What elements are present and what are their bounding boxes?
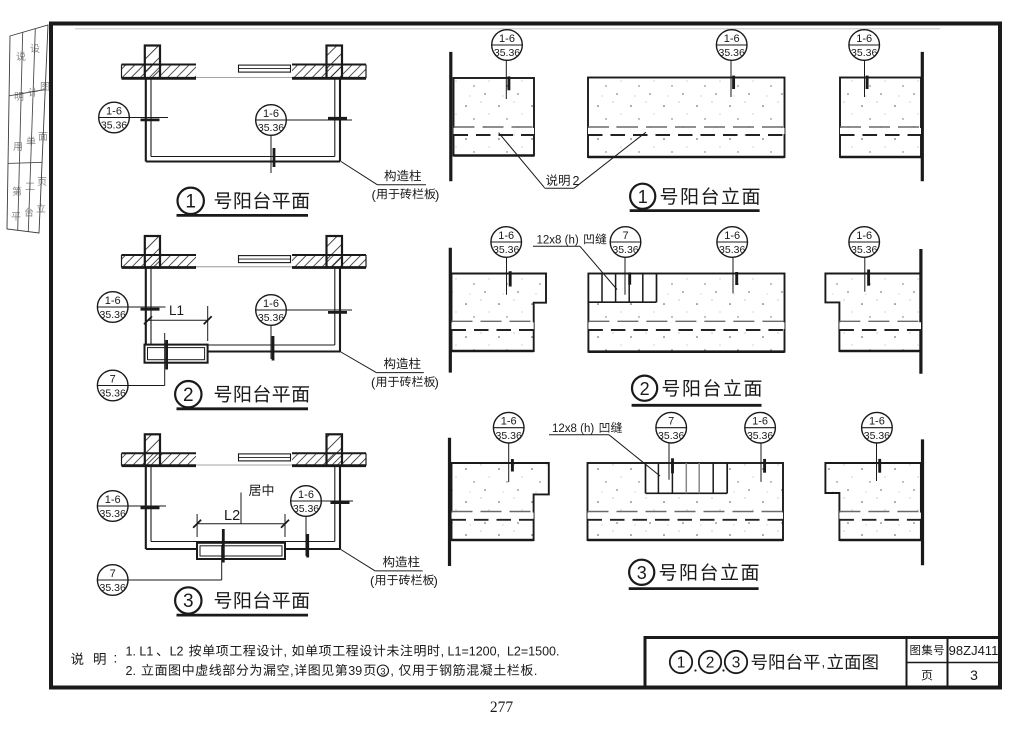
plan2 balcony parapet wall right (double line) (339, 268, 341, 352)
elev1 building wall edge left (449, 52, 452, 181)
svg-text:2: 2 (183, 385, 194, 406)
elev2 panel right hollow-part dashed lines (839, 322, 921, 329)
plan3 middle axis line right and tick on right wall (321, 500, 353, 502)
plan3 middle axis drop line and tick on bottom wall (305, 516, 307, 556)
svg-text:35.36: 35.36 (258, 122, 284, 134)
plan1 exterior wall band left segment (hatched) (122, 65, 197, 79)
svg-text:(: ( (372, 187, 377, 202)
plan3 title: circled 3 号阳台平面 (175, 587, 309, 615)
plan1 middle axis line right and tick on right wall (286, 119, 352, 121)
elev1 building wall edge right (921, 52, 924, 181)
svg-text:(: ( (370, 573, 375, 588)
svg-text:3: 3 (970, 667, 978, 683)
elev3 axis circle 1-6/35.36 right (862, 412, 893, 443)
svg-text:277: 277 (490, 699, 514, 716)
elev2 right axis drop line and tick (864, 258, 866, 292)
binding-edge signature table strip (7, 25, 48, 233)
plan3 exterior wall band left segment (hatched) (122, 453, 197, 465)
svg-text:35.36: 35.36 (851, 47, 877, 59)
svg-text:3: 3 (637, 563, 647, 583)
svg-text:35.36: 35.36 (100, 309, 126, 321)
svg-text:3: 3 (380, 666, 385, 677)
elev1 parapet panel left (stippled) (454, 78, 535, 156)
plan1 balcony parapet wall right (double line) (339, 78, 341, 161)
elev1 title: circled 1 号阳台立面 (630, 184, 760, 211)
plan3 exterior wall band right segment (hatched) (292, 453, 366, 465)
svg-text:35.36: 35.36 (658, 430, 684, 442)
plan2 balcony parapet wall left (double line) (145, 268, 147, 352)
plan1 balcony parapet bottom wall (double line) (146, 160, 340, 162)
elev2 building wall edge left (449, 248, 452, 373)
elev1 panel bottom edges (heavy) (454, 154, 535, 157)
plan2 door opening sill lines (196, 266, 292, 268)
svg-text:,: , (284, 644, 291, 658)
elev3 left axis drop line and tick (508, 443, 510, 482)
elev2 title: circled 2 号阳台立面 (632, 376, 762, 406)
elev2 panel middle hollow-part dashed lines (588, 322, 784, 329)
elev2 left axis drop line and tick (506, 258, 508, 295)
general notes 说明 (71, 651, 117, 666)
plan3 axis label circle 1-6/35.36 middle (291, 486, 322, 517)
plan3 balcony parapet wall right (double line) (339, 466, 341, 549)
elev3 axis circle 7/35.36 (656, 412, 687, 443)
plan2 leader line to constructional-column note (340, 352, 376, 373)
plan2 axis label circle 1-6/35.36 middle (256, 295, 287, 326)
svg-text::: : (114, 651, 118, 666)
plan2 left axis line and tick (128, 306, 166, 308)
svg-text:L1: L1 (169, 303, 184, 318)
elev1 note 说明2 with V leader (499, 133, 545, 188)
elev1 right axis drop line and tick (864, 61, 866, 98)
svg-text:2.: 2. (126, 664, 140, 678)
svg-text:): ) (434, 573, 438, 588)
elev2 axis circle 1-6/35.36 left (491, 227, 522, 258)
svg-text:1-6: 1-6 (856, 33, 872, 45)
elev1 axis circle 1-6/35.36 left (492, 30, 523, 61)
plan3 constructional column right (hatched) (327, 434, 343, 465)
elev1 panel middle hollow-part dashed lines (588, 128, 785, 134)
svg-text:L2: L2 (170, 644, 187, 658)
plan2 balcony bottom wall (double line, planter to right wall) (208, 350, 340, 352)
svg-text:1-6: 1-6 (724, 230, 740, 242)
elev3 title: circled 3 号阳台立面 (629, 560, 759, 589)
elev2 parapet panel right with side tab (stippled) (825, 274, 921, 352)
elev3 circle-7 drop line and tick (668, 443, 670, 480)
plan2 title: circled 2 号阳台平面 (175, 381, 309, 409)
plan3 leader line to constructional-column note (340, 549, 375, 571)
svg-text:35.36: 35.36 (494, 47, 520, 59)
plan3 note text 构造柱(用于砖栏板) (383, 556, 394, 567)
svg-text:1: 1 (638, 187, 648, 207)
elev2 parapet panel left with step notch (stippled) (452, 274, 547, 352)
plan2 leader from circle 7 to planter and tick (128, 385, 165, 387)
plan3 axis label circle 7/35.36 (97, 565, 128, 596)
plan2 axis label circle 7/35.36 (97, 370, 128, 401)
elev3 right axis drop line and tick (876, 443, 878, 481)
plan2 middle axis drop line and tick on bottom wall (270, 325, 272, 359)
elev1 panel left hollow-part dashed lines (454, 128, 535, 134)
plan2 dimension L1 (148, 319, 208, 321)
elev3 building wall edge left (448, 438, 451, 566)
title block frame (645, 638, 1001, 688)
elev2 axis circle 1-6/35.36 right (849, 227, 880, 258)
svg-text:35.36: 35.36 (100, 582, 126, 594)
elev2 axis circle 7/35.36 (610, 227, 641, 258)
elev3 middle axis drop line and tick (760, 443, 762, 482)
plan3 label 居中 with leader (249, 485, 261, 496)
elev3 middle panel groove comb (凹缝) recessed (646, 463, 728, 493)
title block divider lines (906, 638, 908, 688)
svg-text:1-6: 1-6 (263, 108, 279, 120)
svg-text:2: 2 (640, 379, 650, 399)
svg-text:1: 1 (677, 654, 686, 671)
elev2 axis circle 1-6/35.36 middle (717, 227, 748, 258)
elev1 parapet panel middle (stippled) (588, 78, 785, 158)
svg-text:7: 7 (622, 230, 628, 242)
elev2 building wall edge right (919, 249, 922, 374)
svg-text:1-6: 1-6 (105, 295, 121, 307)
svg-text:1-6: 1-6 (298, 489, 314, 501)
plan1 note text 构造柱(用于砖栏板) (384, 170, 395, 181)
svg-text:35.36: 35.36 (100, 388, 126, 400)
svg-text:7: 7 (110, 568, 116, 580)
elev2 panel bottom edges (heavy) (452, 350, 534, 353)
svg-text:1-6: 1-6 (752, 416, 768, 428)
title block label 页 (922, 670, 933, 680)
svg-text:1-6: 1-6 (263, 298, 279, 310)
svg-text:1-6: 1-6 (106, 105, 122, 117)
title block circled numbers 1 2 3 (670, 651, 747, 673)
elev2 panel left hollow-part dashed lines (452, 322, 534, 329)
plan2 exterior wall band left segment (hatched) (122, 255, 197, 268)
svg-text:98ZJ411: 98ZJ411 (949, 643, 999, 658)
svg-text:1: 1 (185, 192, 196, 213)
plan2 middle axis line right and tick on right wall (286, 309, 352, 311)
plan2 constructional column left (hatched) (145, 236, 160, 268)
svg-text:35.36: 35.36 (101, 120, 127, 132)
plan3 constructional column left (hatched) (145, 434, 160, 465)
svg-text:35.36: 35.36 (258, 312, 284, 324)
elev3 axis circle 1-6/35.36 left (493, 412, 524, 443)
elev1 parapet panel right (stippled) (840, 78, 921, 158)
svg-text:1-6: 1-6 (105, 494, 121, 506)
elev3 parapet panel middle (stippled) (588, 463, 784, 540)
elev1 middle axis drop line and tick (730, 61, 732, 98)
svg-text:35.36: 35.36 (747, 430, 773, 442)
svg-text:1-6: 1-6 (856, 230, 872, 242)
svg-text:): ) (435, 375, 439, 390)
plan2 exterior wall band right segment (hatched) (292, 255, 366, 268)
elev1 panel right hollow-part dashed lines (840, 128, 921, 134)
svg-text:1-6: 1-6 (498, 230, 514, 242)
svg-text:1-6: 1-6 (724, 33, 740, 45)
svg-text:.: . (534, 664, 537, 678)
elev3 panel right hollow-part dashed lines (839, 513, 921, 519)
svg-text:1-6: 1-6 (501, 416, 517, 428)
svg-text:3: 3 (183, 591, 194, 612)
elev3 parapet panel right with side tab (stippled) (825, 463, 921, 540)
plan3 balcony bottom wall (double line) (146, 548, 340, 550)
elev3 parapet panel left with side tab (stippled) (452, 463, 549, 540)
elev3 panel bottom edges (heavy) (452, 539, 534, 542)
plan1 axis label circle 1-6/35.36 middle (256, 105, 287, 136)
plan3 door opening sill lines (196, 464, 292, 466)
svg-text:12x8 (h): 12x8 (h) (537, 235, 582, 247)
plan1 constructional column right (hatched) (327, 46, 343, 79)
plan2 axis label circle 1-6/35.36 left (97, 292, 128, 323)
plan1 leader line to constructional-column note (341, 162, 377, 185)
elev1 left axis drop line and tick (505, 61, 507, 100)
plan1 exterior wall band right segment (hatched) (292, 65, 366, 79)
svg-text:3: 3 (732, 654, 741, 671)
elev2 circle-7 drop line and tick (624, 258, 626, 295)
plan1 left axis line and tick (129, 117, 168, 119)
svg-text:,: , (390, 664, 397, 678)
plan1 middle axis drop line and tick on bottom wall (270, 135, 272, 173)
elev1 axis circle 1-6/35.36 middle (716, 30, 747, 61)
plan3 dimension L2 (197, 523, 285, 525)
elev1 axis circle 1-6/35.36 right (849, 30, 880, 61)
svg-text:12x8 (h): 12x8 (h) (552, 423, 597, 435)
elev3 building wall edge right (921, 439, 924, 565)
svg-text:,: , (822, 654, 826, 669)
plan2 note text 构造柱(用于砖栏板) (384, 358, 395, 369)
svg-text:35.36: 35.36 (493, 244, 519, 256)
plan3 planter box centered (double outline) (197, 543, 285, 559)
plan1 axis label circle 1-6/35.36 left (99, 102, 130, 133)
svg-text:): ) (435, 187, 439, 202)
elev2 middle panel groove comb (凹缝) (588, 274, 656, 303)
svg-text:2: 2 (573, 174, 580, 188)
svg-text:35.36: 35.36 (851, 244, 877, 256)
svg-text:35.36: 35.36 (864, 430, 890, 442)
svg-text:1-6: 1-6 (499, 33, 515, 45)
plan1 constructional column left (hatched) (145, 46, 160, 79)
svg-text:39: 39 (348, 664, 362, 678)
svg-text:35.36: 35.36 (496, 430, 522, 442)
plan3 left axis line and tick (128, 505, 166, 507)
title block label 图集号 (910, 645, 920, 655)
plan3 leader from circle 7 to planter and tick (128, 579, 222, 581)
svg-text:35.36: 35.36 (719, 47, 745, 59)
svg-text:1-6: 1-6 (869, 416, 885, 428)
plan3 balcony parapet wall left (double line) (145, 466, 147, 549)
plan1 door opening sill lines (196, 77, 292, 79)
svg-text:7: 7 (110, 373, 116, 385)
title block drawing name 号阳台平,立面图 (752, 654, 878, 670)
plan3 axis label circle 1-6/35.36 left (97, 491, 128, 522)
elev3 panel left hollow-part dashed lines (452, 513, 534, 519)
svg-text:,: , (290, 664, 293, 678)
plan1 balcony parapet wall left (double line) (145, 78, 147, 161)
svg-text:2: 2 (706, 654, 715, 671)
svg-text:35.36: 35.36 (719, 244, 745, 256)
elev2 middle axis drop line and tick (732, 258, 734, 294)
svg-text:35.36: 35.36 (100, 508, 126, 520)
svg-text:(: ( (371, 375, 376, 390)
svg-text:, L1=1200, L2=1500.: , L1=1200, L2=1500. (441, 644, 560, 658)
plan1 title: circled 1 号阳台平面 (177, 188, 310, 216)
elev3 panel middle hollow-part dashed lines (588, 513, 784, 519)
svg-text:L2: L2 (224, 508, 240, 524)
elev3 axis circle 1-6/35.36 middle (745, 412, 776, 443)
svg-text:35.36: 35.36 (612, 244, 638, 256)
svg-text:1. L1: 1. L1 (126, 644, 154, 658)
svg-text:35.36: 35.36 (293, 503, 319, 515)
plan2 constructional column right (hatched) (327, 236, 343, 268)
plan2 planter box at left (double outline) (145, 345, 208, 363)
svg-text:7: 7 (668, 416, 674, 428)
elev2 parapet panel middle (stippled) (588, 274, 784, 352)
